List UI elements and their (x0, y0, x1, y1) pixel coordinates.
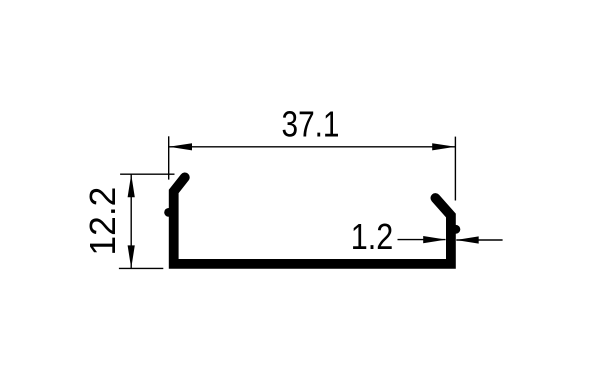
dim 37.1 right arrowhead (432, 143, 455, 150)
dim 12.2 extension line bottom (119, 267, 163, 269)
dim 12.2 bottom arrowhead (128, 245, 135, 268)
svg-text:37.1: 37.1 (282, 104, 340, 145)
dim 1.2 leader line right (456, 239, 502, 241)
dim 1.2 leader line left (398, 239, 446, 241)
dim 12.2 top arrowhead (128, 174, 135, 197)
profile outline (thick channel section) (174, 177, 451, 264)
dim 1.2 left arrowhead (pointing right) (423, 236, 446, 243)
svg-text:12.2: 12.2 (82, 187, 123, 256)
dim 12.2 extension line top (120, 173, 174, 175)
dim 37.1 extension line right (454, 137, 456, 201)
dim 12.2 dimension line (130, 175, 132, 269)
dim 37.1 left arrowhead (169, 143, 192, 150)
dim 1.2 right arrowhead (pointing left) (456, 236, 479, 243)
svg-text:1.2: 1.2 (351, 216, 394, 257)
dim 37.1 dimension line (169, 146, 455, 148)
right wall bump (452, 225, 461, 234)
dim 37.1 extension line left (168, 136, 170, 179)
left wall bump (164, 208, 173, 217)
